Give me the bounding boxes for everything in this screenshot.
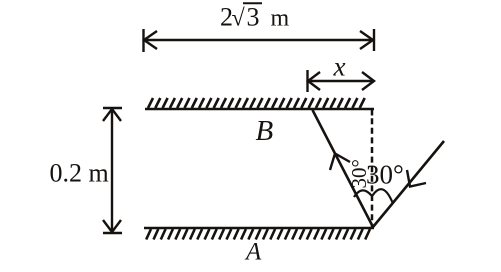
svg-text:0.2 m: 0.2 m (50, 159, 109, 188)
dimension arrow 0.2 m (103, 108, 122, 233)
svg-text:m: m (271, 6, 290, 32)
dashed vertical line (371, 109, 374, 227)
mirror A hatching (146, 229, 370, 240)
svg-text:3: 3 (247, 3, 260, 32)
dimension arrow x (307, 70, 374, 92)
angle arc left (354, 190, 372, 197)
svg-text:x: x (333, 52, 346, 82)
svg-text:A: A (244, 239, 262, 266)
incident ray (373, 141, 444, 227)
mirror B hatching (148, 98, 365, 108)
reflected ray to B (313, 110, 374, 227)
dimension arrow 2√3 m (143, 29, 374, 52)
svg-text:B: B (256, 115, 274, 147)
svg-text:30°: 30° (366, 160, 404, 190)
mirror B line (145, 108, 374, 111)
svg-text:√: √ (232, 6, 246, 32)
arrowhead on reflected ray (330, 154, 350, 171)
angle arc right (373, 189, 393, 202)
mirror A line (144, 227, 374, 230)
arrowhead on incident ray (407, 170, 426, 187)
label 2√3 m (220, 3, 290, 32)
